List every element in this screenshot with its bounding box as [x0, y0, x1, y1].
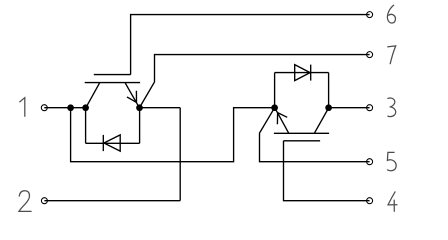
- wire drop to pin 2 row: [179, 108, 181, 201]
- pin 5 terminal: [367, 159, 373, 165]
- pin 7 terminal: [367, 52, 373, 58]
- wire pin 3: [329, 107, 370, 109]
- pin 1 terminal: [41, 105, 47, 111]
- junction dot B: [82, 104, 89, 111]
- pin 7 label: [387, 46, 395, 64]
- transistor Q2: [274, 108, 329, 141]
- pin 6 label: [387, 5, 395, 23]
- pin 6 terminal: [367, 12, 373, 18]
- wire pin1 collector rail: [44, 107, 85, 109]
- wire pin 2: [44, 200, 180, 202]
- junction dot A: [67, 104, 74, 111]
- wire pin 6 gate lead: [131, 15, 370, 75]
- wire pin 4 gate lead: [284, 141, 370, 201]
- diode D2: [275, 65, 329, 108]
- pin 2 terminal: [41, 198, 47, 204]
- pin 4 label: [388, 191, 397, 211]
- wire bus node1 to right collector: [71, 108, 275, 162]
- junction dot C: [136, 104, 143, 111]
- pin 4 terminal: [367, 198, 373, 204]
- junction dot D: [271, 104, 278, 111]
- transistor Q1: [85, 75, 140, 108]
- pin 2 label: [19, 191, 32, 212]
- pin 5 label: [387, 152, 396, 170]
- pin 1 label: [19, 98, 25, 117]
- junction dot E: [325, 104, 332, 111]
- pin 3 terminal: [367, 105, 373, 111]
- diode D1: [86, 108, 140, 151]
- pin 3 label: [387, 98, 395, 117]
- wire emitter rail to drop: [140, 107, 181, 109]
- wire pin 5 emitter-aux lead: [260, 108, 370, 162]
- wire pin 7 emitter-aux lead: [140, 55, 370, 108]
